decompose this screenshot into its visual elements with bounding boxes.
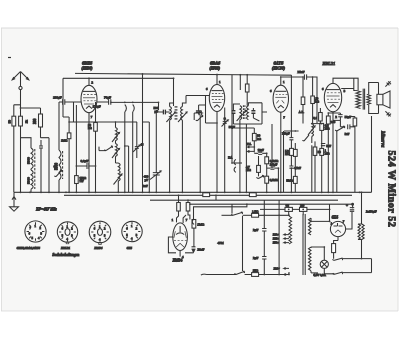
mains rail bottom — [207, 274, 237, 276]
wire antenna jog — [14, 105, 21, 193]
wire L1 top — [21, 138, 32, 170]
wire lamp connections — [311, 247, 333, 274]
svg-text:2x50µF: 2x50µF — [366, 209, 377, 213]
svg-text:60: 60 — [54, 164, 58, 168]
svg-text:ZF=487 kHz: ZF=487 kHz — [36, 207, 57, 212]
wire column x149 — [143, 122, 150, 192]
wire 1M osc down — [68, 139, 70, 193]
wire tube1 cathode down — [88, 113, 90, 193]
wire column x128.6 — [125, 146, 129, 192]
diode arrow det — [256, 175, 263, 178]
coil L3c padder — [118, 163, 120, 181]
junction dots ground bus — [20, 191, 363, 193]
IF transformer T2 — [231, 105, 255, 121]
wire tone branch — [337, 117, 355, 193]
svg-text:pF: pF — [145, 178, 149, 182]
resistor 1k tone — [353, 118, 357, 126]
resistor 0,5M ebl grid — [320, 123, 330, 130]
resistor anode load left — [299, 97, 305, 114]
wire pot column — [312, 124, 322, 193]
resistor 0,5M det1 — [265, 157, 279, 164]
resistor 160 cathode — [326, 116, 335, 124]
wire choke down — [361, 239, 363, 259]
wire tube3 cathode down — [280, 112, 282, 192]
wire A.L. — [319, 108, 321, 124]
switch tone EBL — [335, 126, 345, 131]
wire 50 ohm mid — [314, 141, 316, 192]
wire plate loop tube1-IF1 — [63, 78, 174, 106]
wire tube3 anode top — [281, 77, 303, 85]
wire 6X4 output — [346, 212, 352, 229]
svg-text:5000: 5000 — [26, 177, 30, 184]
tube U1 6BE6 — [81, 85, 97, 112]
heater rail 1 — [150, 199, 338, 201]
svg-text:(EBC90): (EBC90) — [272, 67, 286, 71]
wire column x73.5 — [73, 102, 75, 122]
svg-text:6AT6: 6AT6 — [274, 61, 284, 66]
svg-text:10nF: 10nF — [258, 148, 265, 152]
arrow L3b — [112, 148, 119, 158]
wire L2 bottom — [58, 180, 60, 192]
switch tone top — [332, 258, 342, 260]
wire speaker top — [369, 83, 379, 95]
wire column x240 screen — [240, 75, 247, 106]
svg-text:2nF: 2nF — [143, 184, 148, 188]
svg-text:6X4: 6X4 — [127, 246, 133, 250]
svg-text:EM34: EM34 — [93, 246, 102, 250]
wire heater secondary bottom — [311, 271, 318, 273]
resistor EM34 feed 1 — [177, 203, 181, 212]
wire right det column — [284, 75, 299, 192]
svg-text:1W: 1W — [79, 179, 84, 183]
wire mid horizontal y128 — [232, 162, 242, 164]
filter choke L4 — [358, 224, 364, 240]
resistor 0,5M det2 — [265, 176, 279, 183]
page scan edge left — [1, 28, 3, 311]
capacitor 10nF det — [258, 148, 265, 154]
wire L2 top — [58, 102, 60, 150]
wire 150ohm down — [75, 184, 77, 193]
resistor 5,2M — [285, 149, 297, 156]
tube U3 6AT6 — [273, 85, 288, 112]
wire grid leak — [312, 77, 314, 124]
wire tube4 anode to OT — [333, 78, 358, 90]
wire B+ line to caps — [330, 204, 353, 221]
wire fuse to primary — [259, 214, 289, 217]
fuse resistor F1 on buses — [203, 193, 210, 197]
wire ground bus — [14, 191, 372, 193]
switch contact osc1 — [104, 146, 112, 151]
tube U6 6X4 — [330, 221, 345, 236]
svg-text:150v: 150v — [273, 241, 280, 245]
wire tube4 cathode down — [332, 112, 334, 193]
wire L3c down — [116, 163, 119, 192]
resistor 1,5 ohm — [252, 209, 259, 217]
capacitor 0,1uF — [81, 159, 89, 169]
coil L3b oscillator — [116, 144, 118, 157]
wire antenna down-lead — [20, 90, 22, 193]
wire grid line tube1 — [59, 101, 81, 103]
socket S3 key notch — [99, 242, 102, 244]
svg-text:170pF: 170pF — [93, 105, 101, 109]
wire column x142.5 — [142, 74, 144, 192]
heater rail 3 — [260, 208, 331, 210]
wire fuse2 to primary — [245, 272, 289, 275]
variable capacitor 490pF — [144, 171, 161, 182]
capacitor 70pF — [104, 95, 111, 104]
wire 6X4 plate feed — [311, 218, 331, 221]
svg-text:(EF93): (EF93) — [210, 67, 221, 71]
svg-text:25nF: 25nF — [298, 70, 305, 74]
volume pot 0,5M — [308, 124, 315, 137]
wire tube2 anode to bus — [216, 75, 218, 85]
svg-text:100: 100 — [300, 205, 305, 208]
switch mains bottom — [234, 271, 244, 274]
wire det cluster — [232, 128, 278, 192]
switch mains top — [231, 212, 242, 215]
wire column x279 — [278, 200, 280, 274]
wire cathode cluster — [328, 113, 340, 192]
wire T1 connections — [156, 96, 205, 193]
svg-text:5000: 5000 — [26, 157, 30, 164]
wire 25nF to grid — [307, 77, 317, 123]
antenna A1 — [12, 72, 29, 90]
resistor 4,7M det — [246, 165, 260, 172]
wire column x246 — [245, 124, 247, 192]
arrow L3c trimmer — [114, 174, 122, 184]
svg-text:MΩ: MΩ — [325, 152, 331, 156]
heater rail 2 — [190, 203, 353, 205]
capacitor 100pF left block — [39, 140, 43, 154]
resistor 1M EM34 — [192, 220, 205, 229]
svg-text:70pF: 70pF — [104, 95, 111, 99]
capacitor 5nF tone — [345, 124, 350, 136]
svg-text:5nF: 5nF — [345, 132, 350, 136]
junction dots mid — [20, 76, 363, 275]
svg-text:2µF: 2µF — [253, 256, 259, 260]
pilot lamp LP1 — [320, 260, 328, 268]
capacitor 180pF — [53, 95, 65, 104]
junction dots top bus — [88, 73, 248, 79]
wire switch osc1 — [99, 147, 106, 151]
wire resistor lamp — [334, 237, 338, 259]
svg-text:T.A.: T.A. — [247, 142, 252, 146]
svg-text:20nF: 20nF — [198, 248, 205, 252]
wire column x225 — [224, 108, 226, 193]
transformer T4 core — [303, 214, 305, 275]
svg-text:(EH90): (EH90) — [82, 67, 94, 71]
trimmer capacitor 30pF — [222, 118, 236, 129]
switch tone bottom — [332, 272, 342, 274]
svg-text:47M: 47M — [218, 241, 224, 245]
svg-text:5MΩ: 5MΩ — [286, 178, 293, 182]
wire right edge vertical — [371, 116, 373, 192]
svg-text:6BE6: 6BE6 — [82, 61, 93, 66]
svg-text:1k: 1k — [24, 120, 28, 124]
wire filter column — [361, 192, 363, 224]
wire cap branch down — [40, 154, 42, 192]
svg-text:50: 50 — [7, 120, 11, 124]
wire column x76.4 — [75, 105, 77, 176]
tube U5 EM34 magic eye — [173, 223, 188, 251]
wire L1 bottom — [30, 189, 32, 192]
wire heater drop columns — [216, 195, 303, 215]
wire mains lead jog — [194, 204, 247, 219]
svg-text:6X4: 6X4 — [332, 214, 338, 219]
arrow L3a — [112, 132, 119, 142]
svg-text:220v: 220v — [274, 266, 281, 270]
wire tube4 screen to bus — [341, 78, 356, 90]
wire tube2 grid left — [186, 95, 209, 97]
svg-text:EM34: EM34 — [172, 257, 183, 262]
coil L1a antenna — [26, 148, 33, 169]
svg-text:Sockelschaltungen: Sockelschaltungen — [52, 253, 79, 257]
wire bus drop x70 / resistor 1M osc — [63, 78, 69, 133]
resistor 15 ohm — [252, 269, 259, 277]
wire cathode cap stub — [199, 105, 206, 114]
wire osc feed row y122 — [69, 121, 137, 123]
wire column x232 — [231, 75, 233, 163]
wire mid horizontal y124 — [233, 112, 283, 192]
resistor 50 ohm mid — [313, 147, 321, 155]
capacitor 25nF coupling — [298, 70, 307, 80]
wire resistor 300 branch — [21, 108, 50, 192]
svg-text:5nF: 5nF — [326, 144, 331, 148]
socket S3 (EM34) — [89, 221, 111, 243]
wire 20nF down — [185, 249, 194, 253]
resistor 5M det — [286, 176, 297, 183]
socket S4 (6X4) — [122, 221, 142, 241]
svg-text:EBL21: EBL21 — [322, 61, 336, 66]
wire T2 secondary to tube3 — [262, 103, 267, 112]
wire EM34 top pins — [177, 195, 190, 223]
svg-text:524 W Minor 52: 524 W Minor 52 — [386, 151, 397, 228]
svg-text:+: + — [346, 203, 348, 207]
mains cord hook top — [192, 219, 194, 224]
capacitor 160pF det — [270, 163, 278, 170]
ground symbol main — [10, 192, 19, 211]
switch cathode (bandswitch contact) — [196, 115, 203, 121]
resistor grid leak EBL — [311, 96, 320, 104]
svg-text:1MΩ: 1MΩ — [197, 222, 205, 226]
transformer T4 primary — [289, 216, 292, 244]
resistor A.L. — [313, 113, 322, 122]
wire switch gang link — [242, 216, 244, 271]
resistor R-heat3 on rail3 — [285, 205, 292, 212]
mains cord hook bottom — [201, 273, 207, 276]
wire T2 connections — [233, 103, 262, 124]
trimmer hook 2 — [133, 105, 135, 112]
svg-text:1MΩ: 1MΩ — [61, 139, 68, 143]
trimmer capacitor 45pF — [133, 142, 144, 152]
capacitor 4,7nF — [289, 166, 301, 171]
tube U4 EBL21 — [324, 83, 341, 111]
capacitor 2uF lower — [253, 256, 267, 260]
tube U2 6BA6 — [209, 85, 224, 112]
switch mute — [302, 135, 309, 141]
resistor screen dropper — [245, 84, 249, 92]
transformer T4 secondary heater — [309, 247, 312, 271]
resistor EM34 feed 2 — [186, 203, 190, 212]
wire 30k column — [95, 102, 97, 192]
svg-text:T.A.: T.A. — [228, 155, 233, 159]
capacitor 750pF — [282, 131, 293, 139]
capacitor tube2 cathode bypass — [196, 111, 202, 113]
svg-text:MΩ: MΩ — [325, 127, 331, 131]
wire EM34 cathode — [179, 251, 181, 257]
resistor 1k antenna — [19, 116, 29, 126]
terminal hooks T.A. — [234, 159, 236, 172]
resistor R-heat4 on rail3 — [300, 205, 307, 212]
wire column x239 — [239, 124, 241, 192]
wire 490pF column — [155, 169, 157, 193]
socket S2 (EBL21) — [57, 222, 77, 242]
trimmer hook 1 — [125, 105, 127, 112]
wire anode load left — [302, 77, 304, 124]
socket S2 key notch — [66, 242, 69, 244]
capacitor 5nF — [321, 144, 332, 148]
page scan edge bottom — [1, 310, 398, 312]
resistor 100 ohm lamp — [332, 244, 336, 253]
resistor 300 — [33, 114, 43, 127]
wire column x132.7 — [132, 112, 134, 192]
wire speaker bottom — [369, 105, 379, 114]
wire tube2 cathode RC link — [206, 122, 218, 124]
wire tube2 cathode down — [216, 112, 218, 193]
svg-text:EBL21: EBL21 — [60, 246, 71, 250]
capacitor 20nF EM34 — [192, 247, 205, 252]
wire top B+ bus — [75, 73, 291, 75]
speaker LS — [377, 81, 391, 116]
wire tube1 anode to bus — [88, 78, 90, 85]
wire T1 right cap down — [199, 115, 201, 192]
scan speck top left — [8, 57, 11, 59]
resistor 150ohm 1W — [75, 176, 87, 184]
coil L3a oscillator — [116, 128, 118, 141]
svg-text:160pF: 160pF — [270, 163, 278, 167]
output transformer T3 — [356, 89, 371, 110]
svg-text:15Ω: 15Ω — [253, 269, 259, 273]
wire rail arrow — [282, 273, 287, 275]
capacitor 50uF cathode EBL — [338, 115, 351, 119]
wire primary ends — [288, 215, 289, 274]
capacitor 2x50uF — [346, 203, 377, 213]
wire switch to fuse — [243, 214, 252, 216]
wire 1M down — [193, 228, 195, 247]
resistor 1M osc — [61, 133, 71, 143]
capacitor 2uF upper — [253, 228, 267, 232]
mains rail top — [222, 214, 234, 216]
wire tone switch loop — [343, 259, 372, 273]
wire ground bus second — [64, 194, 352, 196]
coil L2 tuned — [55, 150, 63, 180]
wire EM34 left — [168, 237, 176, 253]
svg-text:300: 300 — [33, 118, 37, 124]
wire 0,1uF row — [76, 165, 95, 167]
transformer T4 secondary HT — [309, 218, 312, 235]
wire L3 core column — [115, 122, 117, 163]
resistor 1M right — [320, 148, 330, 155]
svg-text:2µF: 2µF — [253, 228, 259, 232]
fuse resistor F2 on buses — [249, 193, 256, 197]
terminal arrows T.A. — [248, 146, 253, 153]
svg-text:180pF: 180pF — [53, 95, 62, 99]
svg-text:6BA6: 6BA6 — [210, 61, 221, 66]
transformer tap arrows — [284, 234, 289, 270]
wire trimmer 45pF column — [136, 122, 138, 158]
page scan edge top — [1, 27, 398, 29]
resistor 50k right — [290, 148, 294, 155]
resistor 50 — [7, 116, 15, 126]
switch contact band — [54, 170, 62, 177]
IF transformer T1 — [154, 106, 202, 122]
svg-text:Minerva: Minerva — [380, 130, 385, 148]
page scan edge right — [397, 28, 399, 311]
wire column x124.8 — [124, 112, 126, 192]
socket S1 (6BE6,6BA6,6AT6) — [25, 221, 46, 242]
coil L1b antenna — [26, 149, 34, 189]
resistor 30k mixer — [88, 123, 97, 132]
wire tube1 right to 70pF — [97, 102, 159, 110]
wire caps column — [263, 200, 265, 274]
detector: resistor 30k — [252, 133, 261, 140]
